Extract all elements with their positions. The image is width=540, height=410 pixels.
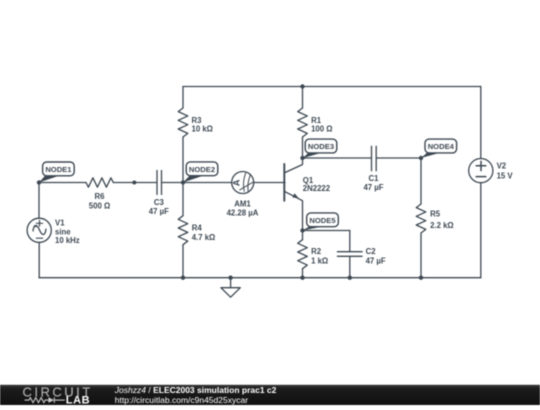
svg-text:100 Ω: 100 Ω [311, 124, 332, 133]
svg-text:NODE4: NODE4 [428, 142, 455, 151]
svg-text:V1: V1 [55, 219, 65, 228]
svg-text:R4: R4 [192, 224, 203, 233]
svg-text:47 µF: 47 µF [366, 257, 386, 266]
svg-text:R6: R6 [95, 192, 106, 201]
svg-text:C2: C2 [366, 247, 377, 256]
svg-text:NODE3: NODE3 [308, 142, 334, 151]
svg-text:10 kΩ: 10 kΩ [192, 124, 213, 133]
svg-text:4.7 kΩ: 4.7 kΩ [192, 233, 216, 242]
svg-text:AM1: AM1 [234, 200, 251, 209]
svg-text:500 Ω: 500 Ω [89, 202, 110, 211]
svg-text:R2: R2 [311, 247, 322, 256]
svg-text:47 µF: 47 µF [149, 207, 169, 216]
svg-text:NODE1: NODE1 [45, 165, 72, 174]
svg-text:C1: C1 [369, 174, 380, 183]
svg-text:NODE5: NODE5 [309, 216, 336, 225]
svg-text:15 V: 15 V [497, 171, 514, 180]
svg-text:1 kΩ: 1 kΩ [311, 257, 328, 266]
svg-text:http://circuitlab.com/c9n45d25: http://circuitlab.com/c9n45d25xycar [115, 395, 248, 405]
svg-text:LAB: LAB [66, 394, 90, 405]
svg-text:47 µF: 47 µF [363, 183, 383, 192]
svg-text:2.2 kΩ: 2.2 kΩ [430, 221, 454, 230]
svg-text:A: A [232, 179, 242, 186]
svg-text:R5: R5 [430, 210, 441, 219]
svg-text:42.28 µA: 42.28 µA [227, 208, 259, 217]
svg-text:10 kHz: 10 kHz [55, 236, 80, 245]
svg-text:2N2222: 2N2222 [303, 184, 331, 193]
svg-text:NODE2: NODE2 [189, 165, 215, 174]
svg-text:V2: V2 [497, 162, 507, 171]
svg-text:Joshzz4 / ELEC2003 simulation: Joshzz4 / ELEC2003 simulation prac1 c2 [114, 385, 277, 395]
svg-text:C3: C3 [154, 198, 165, 207]
